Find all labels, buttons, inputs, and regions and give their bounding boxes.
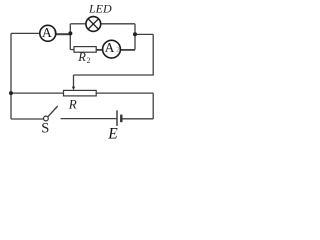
svg-text:S: S <box>41 121 49 137</box>
svg-text:E: E <box>107 125 118 142</box>
svg-text:A: A <box>42 25 52 40</box>
svg-text:1: 1 <box>53 30 56 36</box>
svg-text:2: 2 <box>87 56 91 65</box>
svg-text:A: A <box>105 40 115 55</box>
svg-text:2: 2 <box>116 46 120 54</box>
svg-text:LED: LED <box>88 1 112 15</box>
svg-text:R: R <box>68 96 77 111</box>
svg-text:R: R <box>77 50 86 64</box>
